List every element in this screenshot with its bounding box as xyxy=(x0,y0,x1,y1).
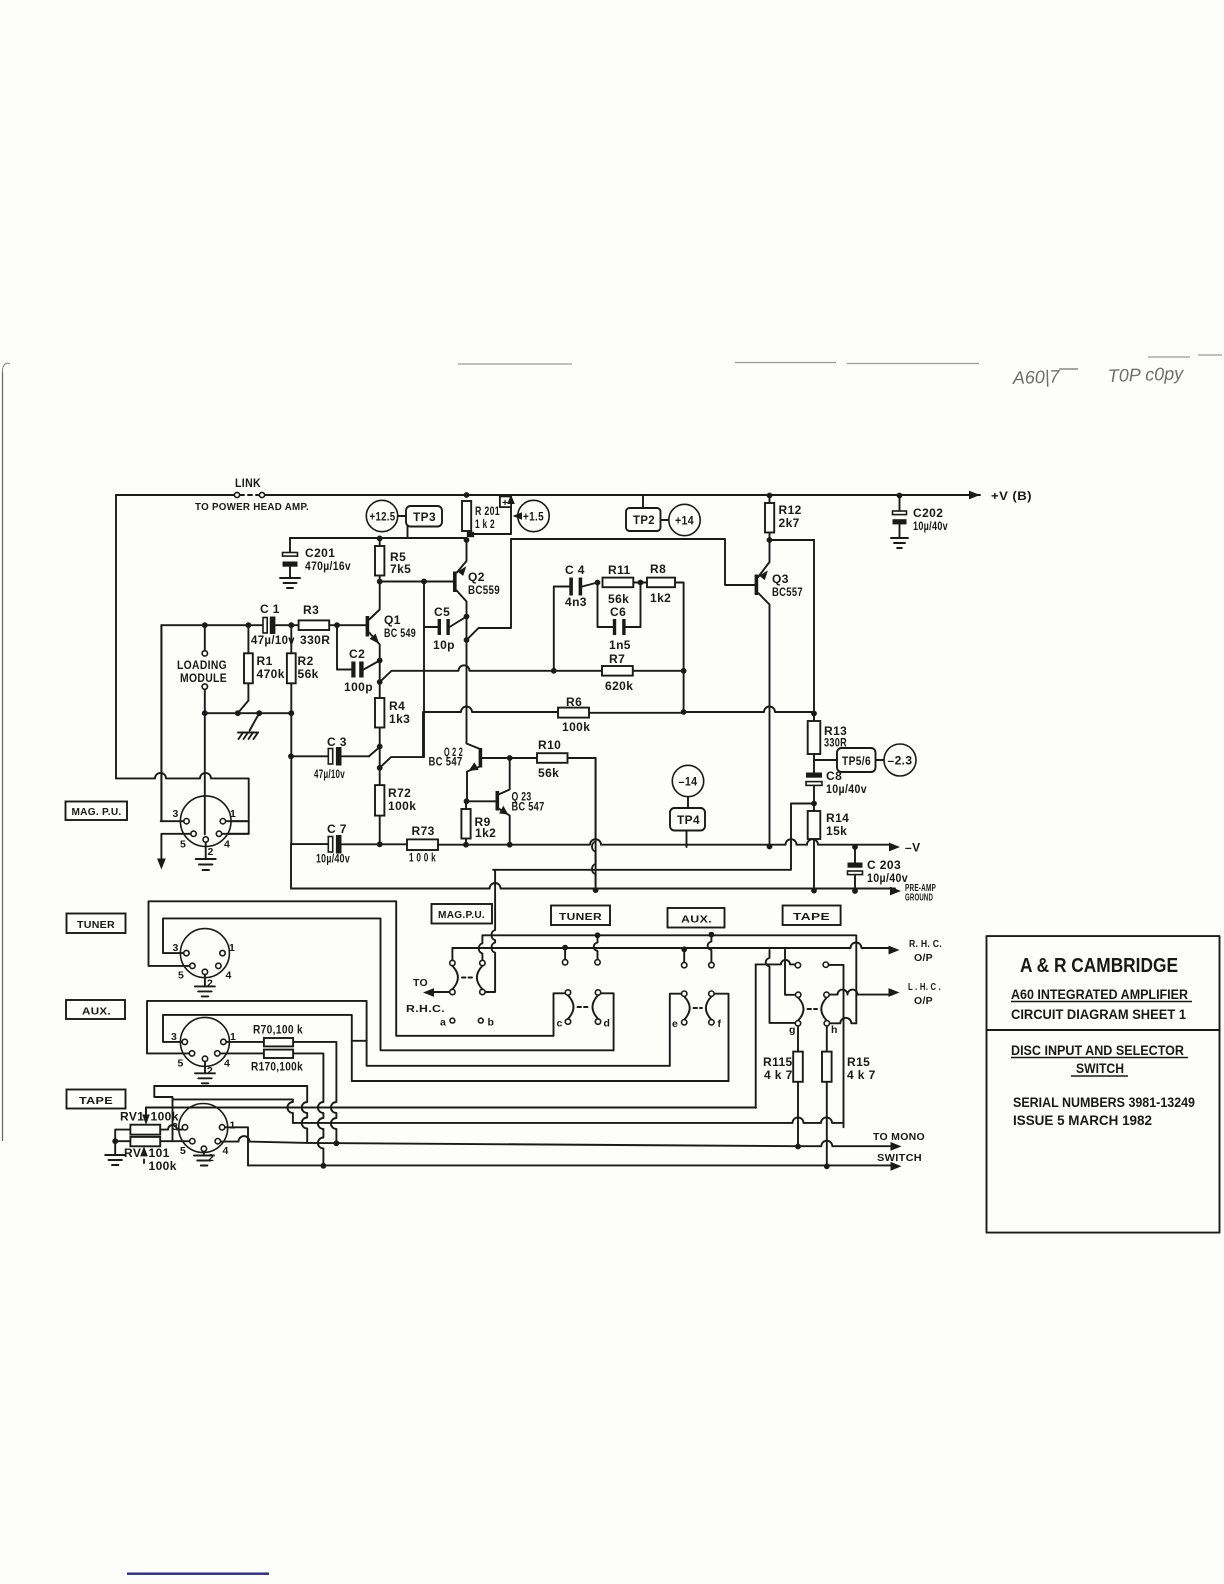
svg-text:AUX.: AUX. xyxy=(681,914,712,926)
svg-text:3: 3 xyxy=(173,942,179,954)
svg-text:R7: R7 xyxy=(609,652,625,666)
svg-text:SWITCH: SWITCH xyxy=(1076,1061,1124,1076)
svg-text:C 7: C 7 xyxy=(327,822,347,836)
svg-text:10µ/40v: 10µ/40v xyxy=(826,782,867,796)
svg-text:C2: C2 xyxy=(349,647,365,661)
svg-text:A & R CAMBRIDGE: A & R CAMBRIDGE xyxy=(1020,955,1178,977)
svg-text:R3: R3 xyxy=(303,603,319,617)
svg-text:b: b xyxy=(488,1017,495,1029)
svg-text:2: 2 xyxy=(208,846,214,858)
svg-text:47µ/10v: 47µ/10v xyxy=(314,767,345,781)
svg-text:1: 1 xyxy=(230,808,236,820)
svg-text:c: c xyxy=(557,1018,563,1030)
svg-text:SWITCH: SWITCH xyxy=(877,1152,922,1164)
svg-text:R115: R115 xyxy=(763,1055,793,1069)
svg-text:470µ/16v: 470µ/16v xyxy=(305,559,351,573)
svg-text:R72: R72 xyxy=(388,786,411,800)
svg-text:d: d xyxy=(604,1018,611,1030)
svg-text:TUNER: TUNER xyxy=(559,911,602,923)
svg-text:C 203: C 203 xyxy=(867,858,901,872)
svg-text:2: 2 xyxy=(208,1152,214,1164)
svg-text:–2.3: –2.3 xyxy=(888,754,913,768)
svg-text:4 k 7: 4 k 7 xyxy=(764,1068,793,1082)
svg-text:5: 5 xyxy=(178,1058,184,1070)
svg-text:DISC INPUT AND SELECTOR: DISC INPUT AND SELECTOR xyxy=(1011,1043,1184,1058)
svg-text:CIRCUIT DIAGRAM SHEET 1: CIRCUIT DIAGRAM SHEET 1 xyxy=(1011,1007,1186,1022)
svg-text:1: 1 xyxy=(230,1120,236,1132)
svg-text:RV1: RV1 xyxy=(120,1110,144,1124)
svg-text:R. H. C.: R. H. C. xyxy=(909,938,942,950)
svg-text:ISSUE 5 MARCH 1982: ISSUE 5 MARCH 1982 xyxy=(1013,1113,1152,1128)
svg-text:RV: RV xyxy=(124,1146,141,1160)
svg-text:MODULE: MODULE xyxy=(180,671,227,685)
svg-text:+V (B): +V (B) xyxy=(991,489,1032,503)
svg-text:5: 5 xyxy=(178,970,184,982)
svg-text:TO POWER HEAD AMP.: TO POWER HEAD AMP. xyxy=(195,501,309,513)
svg-text:–14: –14 xyxy=(679,775,698,789)
svg-text:R 201: R 201 xyxy=(475,504,500,518)
svg-text:10µ/40v: 10µ/40v xyxy=(316,852,350,866)
svg-text:5: 5 xyxy=(180,839,186,851)
svg-text:TP3: TP3 xyxy=(413,510,436,524)
svg-text:R.H.C.: R.H.C. xyxy=(406,1003,445,1015)
svg-text:C 4: C 4 xyxy=(565,563,585,577)
svg-text:R8: R8 xyxy=(650,562,666,576)
svg-text:3: 3 xyxy=(173,808,179,820)
svg-text:1k3: 1k3 xyxy=(389,712,410,726)
svg-text:AUX.: AUX. xyxy=(82,1006,111,1018)
svg-text:R4: R4 xyxy=(389,699,405,713)
svg-text:470k: 470k xyxy=(257,667,285,681)
svg-text:R2: R2 xyxy=(298,654,314,668)
svg-text:10µ/40v: 10µ/40v xyxy=(867,871,908,885)
svg-text:4 k 7: 4 k 7 xyxy=(847,1068,876,1082)
svg-text:BC559: BC559 xyxy=(468,583,500,597)
svg-text:C8: C8 xyxy=(826,769,842,783)
svg-text:56k: 56k xyxy=(608,592,629,606)
svg-text:10µ/40v: 10µ/40v xyxy=(913,519,948,533)
svg-text:SERIAL NUMBERS 3981-13249: SERIAL NUMBERS 3981-13249 xyxy=(1013,1095,1195,1110)
svg-text:47µ/10v: 47µ/10v xyxy=(251,633,295,647)
svg-text:TO MONO: TO MONO xyxy=(873,1131,925,1143)
svg-text:R11: R11 xyxy=(608,563,631,577)
svg-text:R6: R6 xyxy=(566,695,582,709)
svg-text:3: 3 xyxy=(171,1031,177,1043)
svg-text:MAG.P.U.: MAG.P.U. xyxy=(438,909,485,921)
svg-text:330R: 330R xyxy=(300,633,330,647)
svg-text:1n5: 1n5 xyxy=(609,638,631,652)
svg-text:g: g xyxy=(789,1024,796,1036)
svg-text:1: 1 xyxy=(230,1031,236,1043)
svg-text:5: 5 xyxy=(180,1145,186,1157)
svg-text:2: 2 xyxy=(207,1065,213,1077)
svg-text:100k: 100k xyxy=(562,720,590,734)
svg-text:TO: TO xyxy=(413,977,428,989)
svg-text:TP5/6: TP5/6 xyxy=(842,754,871,768)
svg-text:10p: 10p xyxy=(433,638,455,652)
svg-text:TP2: TP2 xyxy=(633,513,655,527)
svg-text:2k7: 2k7 xyxy=(779,516,800,530)
svg-text:L . H. C .: L . H. C . xyxy=(908,981,941,993)
svg-text:+14: +14 xyxy=(675,514,694,528)
svg-text:+12.5: +12.5 xyxy=(370,510,396,524)
svg-text:+1.5: +1.5 xyxy=(523,510,544,524)
svg-text:A60|7: A60|7 xyxy=(1011,366,1060,388)
svg-text:R73: R73 xyxy=(412,824,435,838)
svg-text:TUNER: TUNER xyxy=(77,919,115,931)
svg-text:C5: C5 xyxy=(434,605,450,619)
svg-text:Q3: Q3 xyxy=(772,572,789,586)
svg-text:620k: 620k xyxy=(605,679,633,693)
svg-text:C 3: C 3 xyxy=(327,735,347,749)
svg-text:4n3: 4n3 xyxy=(565,595,587,609)
svg-text:56k: 56k xyxy=(298,667,319,681)
svg-text:15k: 15k xyxy=(826,824,847,838)
svg-text:A60 INTEGRATED AMPLIFIER: A60 INTEGRATED AMPLIFIER xyxy=(1011,987,1188,1002)
svg-text:1: 1 xyxy=(229,942,235,954)
svg-text:100k: 100k xyxy=(151,1110,179,1124)
svg-text:O/P: O/P xyxy=(914,995,933,1007)
svg-text:R12: R12 xyxy=(779,503,802,517)
svg-text:4: 4 xyxy=(226,970,232,982)
svg-text:+: + xyxy=(502,497,508,509)
svg-text:2: 2 xyxy=(207,978,213,990)
svg-text:C202: C202 xyxy=(913,506,943,520)
svg-text:C6: C6 xyxy=(610,605,626,619)
svg-text:MAG. P.U.: MAG. P.U. xyxy=(72,806,122,818)
svg-text:BC 547: BC 547 xyxy=(429,755,463,769)
svg-text:4: 4 xyxy=(224,1058,230,1070)
svg-text:1k2: 1k2 xyxy=(475,826,496,840)
svg-text:1 0 0 k: 1 0 0 k xyxy=(409,851,436,865)
svg-text:BC 549: BC 549 xyxy=(384,626,416,640)
svg-text:100k: 100k xyxy=(388,799,416,813)
svg-text:4: 4 xyxy=(223,1145,229,1157)
svg-text:C 1: C 1 xyxy=(260,602,280,616)
svg-text:GROUND: GROUND xyxy=(905,892,933,904)
svg-text:O/P: O/P xyxy=(914,952,933,964)
svg-text:TAPE: TAPE xyxy=(793,911,830,923)
svg-text:R10: R10 xyxy=(538,738,561,752)
svg-text:BC557: BC557 xyxy=(772,585,803,599)
svg-text:R70,100 k: R70,100 k xyxy=(253,1023,303,1037)
svg-text:TAPE: TAPE xyxy=(79,1095,113,1107)
svg-text:–V: –V xyxy=(905,841,920,855)
svg-text:C201: C201 xyxy=(305,546,335,560)
svg-text:T0P c0py: T0P c0py xyxy=(1107,363,1184,386)
svg-text:100p: 100p xyxy=(344,680,373,694)
svg-text:f: f xyxy=(718,1018,722,1030)
svg-text:TP4: TP4 xyxy=(677,813,700,827)
svg-text:R1: R1 xyxy=(257,654,273,668)
svg-text:100k: 100k xyxy=(149,1159,177,1173)
svg-text:1k2: 1k2 xyxy=(650,591,671,605)
svg-text:56k: 56k xyxy=(538,766,559,780)
svg-text:Q1: Q1 xyxy=(384,613,401,627)
svg-text:R170,100k: R170,100k xyxy=(251,1060,303,1074)
svg-text:BC 547: BC 547 xyxy=(512,800,545,814)
svg-text:4: 4 xyxy=(224,839,230,851)
svg-text:LINK: LINK xyxy=(235,476,261,490)
svg-text:a: a xyxy=(440,1017,446,1029)
svg-text:1 k 2: 1 k 2 xyxy=(475,517,495,531)
svg-text:R14: R14 xyxy=(826,811,849,825)
svg-text:h: h xyxy=(831,1024,838,1036)
svg-text:e: e xyxy=(672,1018,678,1030)
svg-text:Q2: Q2 xyxy=(468,570,485,584)
svg-text:R15: R15 xyxy=(847,1055,870,1069)
svg-text:7k5: 7k5 xyxy=(390,562,411,576)
svg-text:101: 101 xyxy=(149,1146,170,1160)
svg-text:LOADING: LOADING xyxy=(177,658,227,672)
